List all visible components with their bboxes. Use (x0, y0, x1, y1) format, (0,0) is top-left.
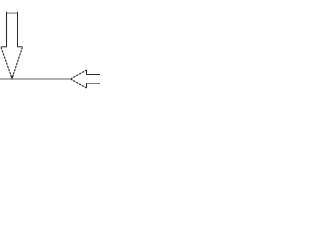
left arrow lower barb vertical (86, 83, 88, 88)
left arrow shaft top (87, 74, 101, 76)
horizontal baseline wire (light gray, ends at left-arrow tip) (0, 78, 70, 80)
down arrow left head edge underlay (faint) (1, 47, 12, 78)
left arrow lower head edge underlay (faint) (71, 79, 87, 88)
down arrow right head edge (dashed aliased look) (12, 47, 22, 78)
down arrow tip (solid convergence on the wire) (11, 75, 14, 78)
down arrow left barb (1, 46, 7, 48)
left arrow upper head edge (dashed aliased look) (71, 70, 87, 79)
left arrow lower head edge (dashed aliased look) (71, 79, 87, 88)
down arrow right shaft side (17, 12, 19, 47)
left arrow upper head edge underlay (faint) (71, 70, 87, 79)
left arrow upper barb vertical (86, 70, 88, 75)
left arrow shaft bottom (gray) (87, 83, 100, 85)
down arrow right barb (17, 46, 23, 48)
down arrow left head edge (dashed aliased look) (1, 47, 12, 78)
down arrow right head edge underlay (faint) (12, 47, 22, 78)
down arrow left shaft side (6, 12, 8, 47)
down arrow top cap (light gray) (6, 12, 18, 14)
down arrow (hollow outline, top-left) (1, 12, 23, 79)
left arrow (hollow outline, right side) (71, 70, 100, 88)
